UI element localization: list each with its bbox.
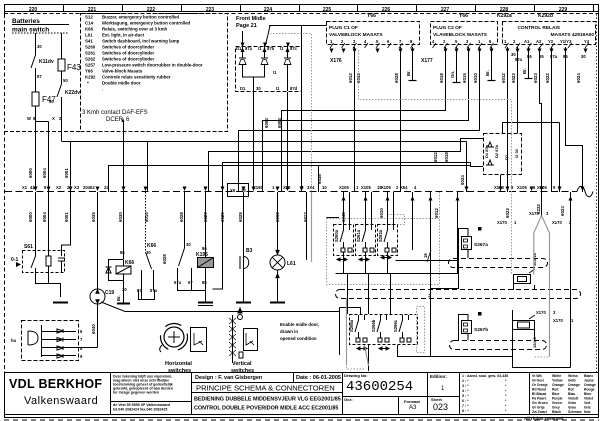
svg-text:6012: 6012 — [501, 73, 506, 83]
svg-text:D1: D1 — [240, 86, 246, 91]
svg-text:Valkenswaard: Valkenswaard — [24, 395, 98, 407]
svg-text:6038: 6038 — [317, 174, 322, 184]
svg-text:7 : *: 7 : * — [462, 404, 469, 408]
svg-text:Ext. light, in air-duct: Ext. light, in air-duct — [102, 33, 145, 38]
svg-text:24: 24 — [427, 293, 432, 298]
svg-text:Or Oranje: Or Oranje — [532, 383, 548, 387]
svg-text:W: W — [27, 116, 31, 121]
svg-text:6022: 6022 — [545, 73, 550, 83]
svg-text:Y2: Y2 — [548, 39, 554, 44]
svg-text:X170: X170 — [553, 318, 563, 323]
svg-text:224: 224 — [264, 7, 273, 13]
svg-text:Switches of doorcylinder: Switches of doorcylinder — [102, 57, 155, 62]
svg-text:223: 223 — [206, 7, 215, 13]
svg-text:S261: S261 — [85, 51, 96, 56]
svg-text:43600254: 43600254 — [346, 379, 413, 395]
svg-text:Formaat: Formaat — [404, 399, 420, 404]
svg-text:A3: A3 — [409, 405, 417, 411]
svg-text:S262a: S262a — [378, 229, 383, 242]
svg-text:L61: L61 — [287, 261, 296, 267]
svg-text:Gez:: Gez: — [344, 397, 353, 402]
svg-text:Gn.: Gn. — [450, 71, 455, 78]
svg-text:S266c: S266c — [393, 319, 398, 332]
svg-text:Gris: Gris — [584, 406, 591, 410]
svg-text:Schwarz: Schwarz — [568, 410, 582, 414]
svg-text:6024: 6024 — [560, 206, 565, 216]
svg-text:30: 30 — [256, 86, 261, 91]
svg-text:S260a: S260a — [334, 229, 339, 242]
svg-text:Green: Green — [552, 401, 562, 405]
svg-text:Orange: Orange — [568, 383, 580, 387]
svg-text:CONTROL DOUBLE POVERIDOR MIDLE: CONTROL DOUBLE POVERIDOR MIDLE ACC EC200… — [194, 406, 338, 412]
svg-text:6040: 6040 — [91, 324, 96, 334]
svg-text:Batteries: Batteries — [12, 18, 40, 25]
svg-text:X2: X2 — [56, 185, 62, 190]
svg-text:Blue: Blue — [552, 392, 559, 396]
svg-text:50: 50 — [63, 78, 68, 83]
svg-text:D1 87a: D1 87a — [484, 144, 489, 158]
svg-text:6000: 6000 — [28, 168, 33, 178]
svg-text:de Vest 55 5555 XP Valkenswaar: de Vest 55 5555 XP Valkenswaard — [113, 403, 170, 407]
svg-text:Zw Zwart: Zw Zwart — [532, 410, 548, 414]
svg-text:6028: 6028 — [394, 73, 399, 83]
svg-text:6010: 6010 — [473, 73, 478, 83]
svg-text:K11dv: K11dv — [39, 59, 54, 65]
svg-text:X170: X170 — [497, 220, 507, 225]
svg-text:6000: 6000 — [28, 212, 33, 222]
svg-text:87: 87 — [37, 74, 42, 79]
svg-text:main switch: main switch — [12, 27, 49, 34]
svg-text:S61: S61 — [24, 244, 33, 250]
svg-text:Gelb: Gelb — [568, 379, 576, 383]
svg-text:VLAVEBLOCK MASATS: VLAVEBLOCK MASATS — [433, 32, 488, 38]
svg-text:Violet: Violet — [584, 397, 594, 401]
svg-text:D2 87b: D2 87b — [494, 144, 499, 158]
svg-text:Page 21: Page 21 — [236, 23, 257, 29]
svg-text:Y66: Y66 — [367, 13, 376, 19]
svg-text:Yellow: Yellow — [552, 379, 563, 383]
svg-text:87a: 87a — [150, 288, 158, 293]
svg-text:PLUG C1 OF: PLUG C1 OF — [329, 25, 358, 31]
svg-text:S267b: S267b — [474, 327, 488, 333]
svg-text:30: 30 — [122, 287, 127, 292]
svg-text:87a: 87a — [245, 46, 253, 51]
svg-text:6013: 6013 — [303, 212, 308, 222]
svg-text:87b: 87b — [267, 46, 275, 51]
svg-text:6024: 6024 — [576, 73, 581, 83]
svg-text:S267a: S267a — [474, 242, 488, 248]
svg-text:67: 67 — [188, 280, 193, 285]
svg-text:6 : *: 6 : * — [462, 399, 469, 403]
svg-text:Purple: Purple — [552, 397, 563, 401]
svg-text:Y4: Y4 — [584, 39, 590, 44]
svg-text:Enable midle door,: Enable midle door, — [280, 322, 319, 327]
svg-text:6015: 6015 — [462, 73, 467, 83]
svg-text:30: 30 — [146, 250, 151, 255]
svg-text:4 : *: 4 : * — [462, 389, 469, 393]
svg-text:X105: X105 — [517, 185, 527, 190]
svg-text:S41: S41 — [85, 39, 93, 44]
svg-text:K66: K66 — [147, 243, 156, 249]
svg-text:229: 229 — [559, 7, 568, 13]
svg-text:Rouge: Rouge — [584, 388, 595, 392]
svg-text:6004: 6004 — [42, 168, 47, 178]
svg-text:S266b: S266b — [371, 319, 376, 332]
svg-text:86: 86 — [120, 250, 125, 255]
svg-text:6004: 6004 — [42, 212, 47, 222]
svg-text:6012: 6012 — [433, 152, 438, 162]
svg-text:225: 225 — [323, 7, 332, 13]
svg-text:MASATS 42919A00: MASATS 42919A00 — [551, 32, 595, 38]
svg-text:Design : F. van Gisbergen: Design : F. van Gisbergen — [195, 375, 263, 381]
svg-text:3 Kmh contact DAF-EFS: 3 Kmh contact DAF-EFS — [82, 110, 148, 116]
svg-text:Grau: Grau — [568, 406, 576, 410]
svg-text:6035: 6035 — [91, 212, 96, 222]
svg-text:K22dv: K22dv — [65, 90, 80, 96]
svg-text:Br.: Br. — [116, 295, 121, 301]
svg-text:VALVEBLOCK MASATS: VALVEBLOCK MASATS — [329, 32, 383, 38]
svg-text:X177: X177 — [421, 58, 433, 64]
svg-text:CONTROL RELAIS: CONTROL RELAIS — [517, 25, 560, 31]
svg-text:Pa Paars: Pa Paars — [532, 397, 546, 401]
svg-text:PLUG C2 OF: PLUG C2 OF — [433, 25, 462, 31]
svg-text:Bleu: Bleu — [584, 392, 591, 396]
svg-text:Rot: Rot — [568, 388, 575, 392]
svg-text:Grün: Grün — [568, 401, 576, 405]
svg-text:6012: 6012 — [348, 73, 353, 83]
svg-text:C14: C14 — [85, 21, 94, 26]
svg-text:D2: D2 — [504, 154, 509, 160]
svg-text:221: 221 — [88, 7, 97, 13]
svg-text:*: * — [87, 81, 89, 86]
svg-text:Controle relais sensitivity ru: Controle relais sensitivity rubber — [102, 75, 171, 80]
svg-text:6023: 6023 — [511, 73, 516, 83]
svg-text:Horizontal: Horizontal — [165, 361, 192, 367]
svg-text:86: 86 — [527, 54, 532, 59]
svg-text:Gl Geel: Gl Geel — [532, 379, 544, 383]
svg-text:87d: 87d — [290, 86, 298, 91]
svg-text:6001: 6001 — [64, 212, 69, 222]
svg-text:X54: X54 — [400, 185, 408, 190]
svg-text:67a: 67a — [174, 280, 182, 285]
svg-text:222: 222 — [147, 7, 156, 13]
svg-text:S12: S12 — [85, 15, 93, 20]
svg-text:PRINCIPE SCHEMA & CONNECTOREN: PRINCIPE SCHEMA & CONNECTOREN — [196, 384, 335, 393]
svg-text:drawn in: drawn in — [280, 329, 298, 334]
svg-text:White: White — [552, 374, 561, 378]
svg-text:6004: 6004 — [264, 118, 269, 128]
svg-text:K292a: K292a — [497, 13, 512, 19]
svg-text:30: 30 — [581, 54, 586, 59]
svg-text:6012: 6012 — [434, 208, 439, 218]
svg-text:6010: 6010 — [379, 208, 384, 218]
svg-text:Buzzer, emergency button contr: Buzzer, emergency button controlled — [102, 15, 179, 20]
svg-text:S266a: S266a — [349, 319, 354, 332]
svg-text:Vert: Vert — [584, 401, 591, 405]
svg-text:Werktagung, emergency button c: Werktagung, emergency button controlled — [102, 21, 191, 26]
svg-text:10: 10 — [322, 185, 327, 190]
svg-text:Switch dashboard, incl warning: Switch dashboard, incl warning lamp — [102, 39, 180, 44]
svg-text:Black: Black — [552, 410, 561, 414]
svg-text:X105: X105 — [381, 185, 391, 190]
svg-text:Front Midle: Front Midle — [236, 16, 266, 22]
svg-text:87c: 87c — [290, 46, 298, 51]
svg-text:16: 16 — [423, 253, 428, 258]
svg-text:Y1/Y3: Y1/Y3 — [560, 39, 572, 44]
svg-text:switches: switches — [231, 368, 254, 374]
svg-text:S262: S262 — [85, 57, 96, 62]
svg-text:8 : *: 8 : * — [462, 409, 469, 413]
svg-text:tel.040 2082424 fax.040 208242: tel.040 2082424 fax.040 2082425 — [113, 408, 167, 412]
svg-text:Edition:: Edition: — [430, 374, 447, 379]
svg-text:B3: B3 — [246, 248, 253, 254]
svg-text:All rights reserved: All rights reserved — [524, 416, 564, 421]
svg-text:Switches of doorcylinder: Switches of doorcylinder — [102, 45, 155, 50]
svg-text:A2: A2 — [536, 39, 542, 44]
svg-text:L61: L61 — [85, 33, 93, 38]
svg-text:Orange: Orange — [552, 383, 564, 387]
svg-text:Rd Rood: Rd Rood — [532, 388, 546, 392]
svg-text:X105: X105 — [339, 185, 349, 190]
svg-text:6001: 6001 — [64, 168, 69, 178]
svg-text:6034: 6034 — [460, 175, 465, 185]
svg-text:X3: X3 — [74, 185, 80, 190]
svg-text:6028: 6028 — [162, 254, 167, 264]
svg-text:Date : 06-01-2005: Date : 06-01-2005 — [296, 375, 341, 381]
svg-text:87: 87 — [137, 288, 142, 293]
svg-text:Orange: Orange — [584, 383, 596, 387]
svg-text:K66: K66 — [125, 260, 134, 266]
svg-text:F43: F43 — [67, 63, 81, 72]
svg-text:BEDIENING DUBBELE MIDDENSVJEUR: BEDIENING DUBBELE MIDDENSVJEUR VLG EEG20… — [194, 397, 341, 403]
svg-text:Valve-block Masats: Valve-block Masats — [102, 69, 143, 74]
svg-text:switches: switches — [168, 368, 191, 374]
svg-text:I2 30: I2 30 — [514, 148, 519, 158]
svg-text:Double midle door: Double midle door — [102, 81, 141, 86]
svg-text:10A/16: 10A/16 — [532, 252, 537, 266]
svg-text:C19: C19 — [105, 290, 114, 296]
svg-text:Jaune: Jaune — [584, 379, 594, 383]
svg-text:Blau: Blau — [568, 392, 575, 396]
svg-text:85: 85 — [202, 280, 207, 285]
svg-text:X5: X5 — [230, 188, 236, 193]
svg-text:F47: F47 — [42, 95, 56, 104]
svg-text:86: 86 — [202, 246, 207, 251]
svg-text:Y66: Y66 — [85, 69, 93, 74]
svg-text:.: . — [102, 87, 103, 92]
svg-text:Bl Blauw: Bl Blauw — [532, 392, 547, 396]
svg-text:VDL BERKHOF: VDL BERKHOF — [9, 377, 102, 391]
svg-text:Vertical: Vertical — [232, 361, 252, 367]
svg-text:2 : *: 2 : * — [462, 379, 469, 383]
svg-text:K66: K66 — [85, 27, 94, 32]
svg-text:Br.: Br. — [485, 70, 490, 76]
svg-text:X170: X170 — [536, 310, 546, 315]
svg-text:6023: 6023 — [505, 208, 510, 218]
svg-text:Violett: Violett — [568, 397, 579, 401]
svg-text:K292b: K292b — [538, 13, 553, 19]
svg-text:X: X — [52, 116, 55, 121]
svg-text:6010: 6010 — [144, 212, 149, 222]
svg-text:6018: 6018 — [444, 152, 449, 162]
svg-text:6023: 6023 — [533, 73, 538, 83]
svg-text:S257: S257 — [85, 63, 96, 68]
svg-text:30: 30 — [186, 242, 191, 247]
svg-text:X1: X1 — [22, 185, 28, 190]
svg-text:Gn Groen: Gn Groen — [532, 401, 548, 405]
svg-text:X176: X176 — [330, 58, 342, 64]
svg-text:6029: 6029 — [238, 212, 243, 222]
svg-text:227: 227 — [441, 7, 450, 13]
svg-text:Y66: Y66 — [459, 13, 468, 19]
svg-text:X170: X170 — [552, 220, 562, 225]
svg-text:Blanc: Blanc — [584, 374, 593, 378]
svg-text:20402: 20402 — [83, 185, 95, 190]
svg-text:DCER: DCER — [106, 117, 124, 123]
svg-text:Noir: Noir — [584, 410, 591, 414]
svg-text:Br.: Br. — [406, 70, 411, 76]
svg-text:S260: S260 — [85, 45, 96, 50]
svg-text:opened condition: opened condition — [280, 336, 317, 341]
svg-text:220: 220 — [29, 7, 38, 13]
svg-text:1 : Aansl. soul. gew. 03-436: 1 : Aansl. soul. gew. 03-436 — [462, 374, 508, 378]
svg-text:X105: X105 — [361, 185, 371, 190]
svg-text:Drawing No:: Drawing No: — [344, 373, 368, 378]
svg-text:5 : *: 5 : * — [462, 394, 469, 398]
svg-text:Vt Wit: Vt Wit — [532, 374, 542, 378]
svg-text:S261a: S261a — [356, 229, 361, 242]
svg-text:Low-pressure switch doorrubber: Low-pressure switch doorrubber in double… — [102, 63, 203, 68]
svg-text:hu: hu — [11, 338, 17, 343]
svg-text:Gr Grijs: Gr Grijs — [532, 406, 545, 410]
svg-text:6028: 6028 — [179, 212, 184, 222]
svg-text:Weiss: Weiss — [568, 374, 578, 378]
svg-text:6030: 6030 — [118, 212, 123, 222]
svg-text:K196: K196 — [196, 252, 208, 258]
svg-text:3 : *: 3 : * — [462, 384, 469, 388]
svg-text:Switches of doorcylinder: Switches of doorcylinder — [102, 51, 155, 56]
svg-text:226: 226 — [382, 7, 391, 13]
svg-text:Br.: Br. — [522, 68, 527, 74]
svg-text:023: 023 — [433, 402, 448, 412]
svg-text:X170: X170 — [529, 211, 539, 216]
svg-text:A1: A1 — [524, 39, 530, 44]
svg-text:Grey: Grey — [552, 406, 560, 410]
svg-text:87a: 87a — [515, 57, 523, 62]
svg-text:Relais, switching over at 3 km: Relais, switching over at 3 kmh — [102, 27, 167, 32]
svg-text:K292: K292 — [85, 75, 96, 80]
svg-text:30: 30 — [37, 44, 42, 49]
svg-text:6018: 6018 — [439, 73, 444, 83]
svg-text:Red: Red — [552, 388, 558, 392]
svg-text:0-1: 0-1 — [11, 257, 18, 263]
svg-text:ter inzage gegeven worden: ter inzage gegeven worden — [113, 391, 159, 395]
svg-text:D1: D1 — [236, 46, 242, 51]
